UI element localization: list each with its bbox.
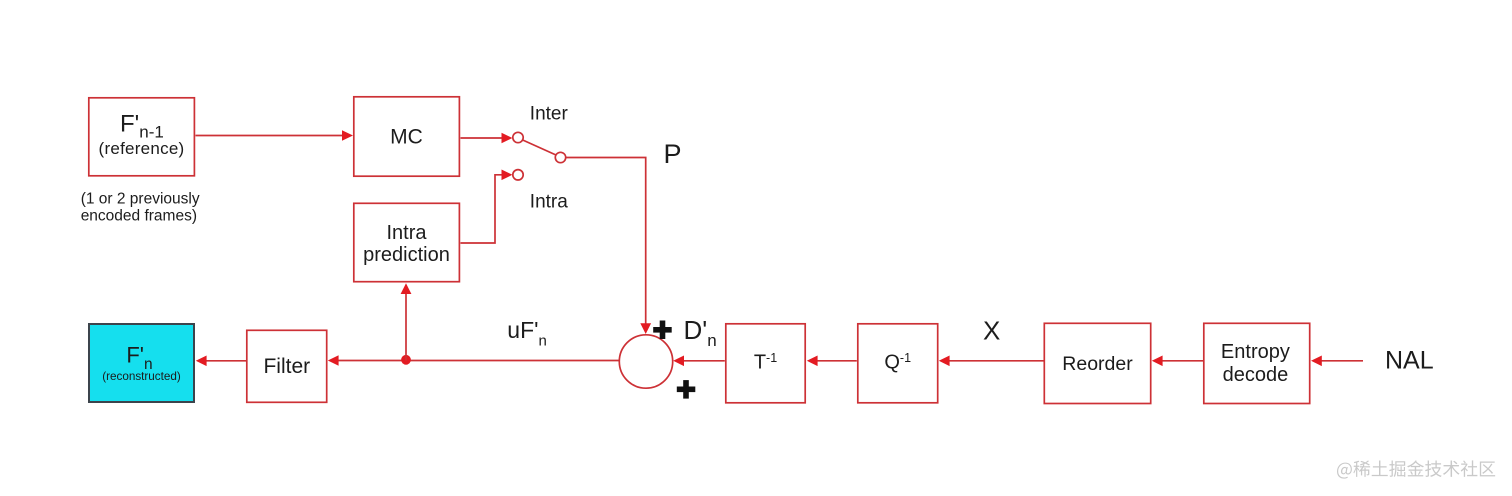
wire adder to Filter <box>328 355 620 366</box>
svg-text:P: P <box>664 139 682 169</box>
svg-text:Inter: Inter <box>530 104 569 125</box>
wire Q-1 to T-1 <box>807 356 857 367</box>
switch blade <box>523 140 556 155</box>
block F'n-1 (reference) box <box>89 98 195 176</box>
svg-text:(reconstructed): (reconstructed) <box>102 370 181 383</box>
switch pole contact <box>555 152 565 162</box>
wire NAL to Entropy decode <box>1311 356 1363 367</box>
wire Intra prediction to Intra contact <box>461 170 513 244</box>
block F'n (reconstructed) cyan box <box>89 324 194 402</box>
svg-text:decode: decode <box>1223 364 1289 386</box>
block MC box <box>354 97 460 176</box>
svg-text:Intra: Intra <box>530 192 568 213</box>
wire Filter to F'n <box>196 356 247 367</box>
svg-text:X: X <box>983 316 1000 346</box>
block Q-1 box <box>858 324 938 403</box>
wire Reorder to Q-1 <box>939 356 1044 367</box>
wire junction to Intra prediction <box>401 283 412 360</box>
svg-text:(1 or 2 previously: (1 or 2 previously <box>81 191 200 208</box>
svg-text:MC: MC <box>390 126 423 149</box>
svg-text:(reference): (reference) <box>99 139 185 158</box>
switch Inter contact <box>513 132 523 142</box>
svg-text:prediction: prediction <box>363 244 450 266</box>
wire Entropy decode to Reorder <box>1152 356 1204 367</box>
svg-text:D'n: D'n <box>684 315 717 350</box>
watermark @稀土掘金技术社区 <box>1337 460 1495 478</box>
label plus bottom <box>677 380 696 399</box>
wire pole to adder (P path) <box>566 158 651 335</box>
block Entropy decode box <box>1204 323 1310 403</box>
adder summation circle <box>619 335 672 388</box>
label (1 or 2 previously encoded frames) caption <box>81 191 200 225</box>
svg-text:uF'n: uF'n <box>507 317 547 350</box>
svg-text:Filter: Filter <box>263 355 310 378</box>
wire F'n-1 to MC <box>196 130 354 141</box>
block Intra prediction box <box>354 203 460 281</box>
wire T-1 to adder <box>673 356 725 367</box>
label F'n text <box>102 342 181 383</box>
junction dot on uF'n line <box>401 355 411 365</box>
block T-1 box <box>726 324 805 403</box>
label plus top <box>653 321 672 340</box>
svg-text:T-1: T-1 <box>754 351 777 373</box>
switch Intra contact <box>513 170 523 180</box>
svg-text:NAL: NAL <box>1385 347 1434 375</box>
svg-text:Intra: Intra <box>386 222 427 244</box>
svg-text:encoded frames): encoded frames) <box>81 208 197 225</box>
svg-text:Q-1: Q-1 <box>884 351 911 373</box>
label Intra prediction text <box>363 222 450 266</box>
label F'n-1 text <box>99 111 185 159</box>
wire MC to Inter contact <box>461 133 513 144</box>
svg-text:Reorder: Reorder <box>1062 353 1133 375</box>
label Entropy decode text <box>1221 341 1290 386</box>
block Reorder box <box>1044 323 1150 403</box>
svg-text:Entropy: Entropy <box>1221 341 1290 363</box>
block Filter box <box>247 330 327 402</box>
svg-text:F'n-1: F'n-1 <box>120 111 164 142</box>
